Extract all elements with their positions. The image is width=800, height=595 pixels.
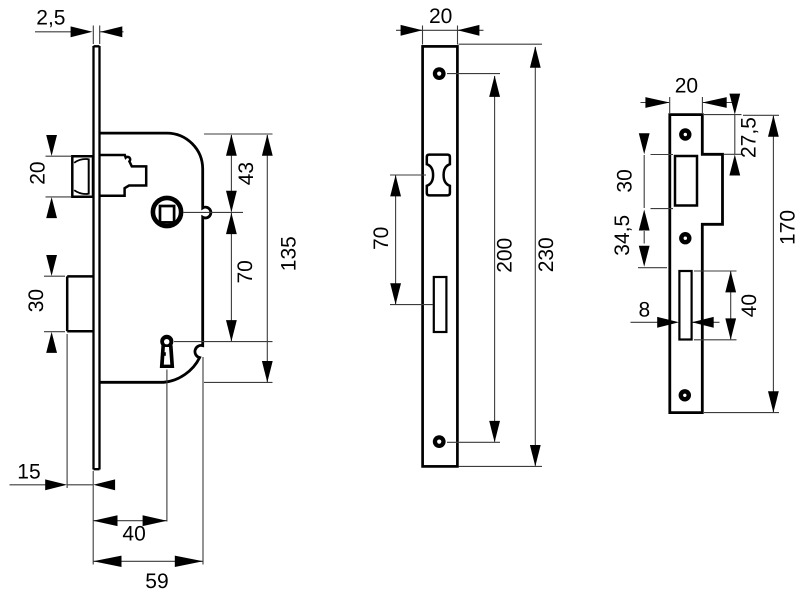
- extension line strike top for 170: [743, 114, 779, 116]
- dimension 135 (case height): [262, 134, 300, 382]
- dimension 20 (strike width): [641, 75, 735, 114]
- extension line body top edge: [204, 133, 273, 135]
- dimension 2,5 (faceplate thickness): [35, 6, 124, 44]
- strike deadbolt opening: [679, 271, 691, 340]
- dimension 40 (backset): [93, 515, 167, 545]
- extension line deadbolt opening top: [694, 270, 737, 272]
- extension line deadbolt opening bottom: [694, 339, 737, 341]
- svg-text:200: 200: [494, 238, 517, 273]
- lock case body outline: [100, 133, 211, 382]
- strike bottom screw hole: [679, 389, 691, 401]
- svg-text:70: 70: [234, 260, 257, 283]
- faceplate side view: [94, 46, 100, 470]
- dimension 230 (faceplate length): [530, 46, 558, 466]
- svg-text:2,5: 2,5: [36, 6, 65, 29]
- dimension 70 (latch to deadbolt): [370, 175, 401, 305]
- extension line keyhole centre: [174, 341, 273, 343]
- extension line deadbolt centre: [390, 304, 433, 306]
- svg-text:20: 20: [675, 75, 698, 98]
- extension line keyhole centre below: [166, 370, 168, 522]
- svg-text:27,5: 27,5: [738, 117, 761, 158]
- svg-text:40: 40: [122, 523, 145, 546]
- extension line 34,5 bottom: [638, 267, 667, 269]
- svg-text:135: 135: [277, 236, 300, 271]
- extension line faceplate below: [92, 471, 94, 565]
- svg-text:30: 30: [25, 289, 48, 312]
- dimension 170 (strike length): [768, 115, 799, 412]
- extension line strike top edge: [704, 114, 742, 116]
- dimension 200 (hole centres): [489, 76, 516, 443]
- dimension 30 (deadbolt height): [25, 255, 65, 353]
- faceplate front outline: [423, 46, 458, 466]
- follower hub (square spindle hole): [153, 198, 181, 226]
- svg-text:230: 230: [535, 237, 558, 272]
- extension line top hole: [447, 73, 500, 75]
- dimension 8 (deadbolt opening width): [631, 298, 720, 327]
- extension line bottom hole: [447, 441, 500, 443]
- dimension 40 (deadbolt opening height): [725, 271, 761, 340]
- extension line latch centre: [390, 174, 426, 176]
- dimension 30 (latch opening height): [614, 133, 650, 230]
- svg-text:15: 15: [17, 460, 40, 483]
- svg-text:20: 20: [27, 161, 50, 184]
- dimension 43 (top edge to follower): [226, 134, 258, 212]
- strike latch opening: [675, 156, 697, 206]
- extension line latch opening top: [651, 154, 674, 156]
- svg-text:30: 30: [614, 169, 637, 192]
- extension line tab top edge: [724, 153, 742, 155]
- dimension 20 (latch height): [27, 135, 72, 218]
- deadbolt cutout: [434, 277, 447, 332]
- deadbolt (protruding, side view): [67, 276, 93, 331]
- svg-text:20: 20: [429, 5, 452, 28]
- extension line strike bottom edge: [704, 412, 779, 414]
- bottom screw hole: [433, 435, 446, 448]
- extension line case right edge below: [202, 357, 204, 565]
- top screw hole: [433, 67, 446, 80]
- latch bolt (protruding, side view): [72, 156, 93, 197]
- extension line latch opening bottom: [651, 208, 674, 210]
- dimension 70 (follower to keyhole): [226, 213, 257, 342]
- dimension 15 (deadbolt throw): [10, 460, 116, 490]
- svg-text:34,5: 34,5: [611, 215, 634, 256]
- dimension 59 (case depth): [93, 556, 203, 594]
- svg-text:40: 40: [738, 294, 761, 317]
- svg-text:59: 59: [145, 570, 168, 593]
- strike middle screw hole: [679, 232, 691, 244]
- keyhole: [160, 335, 174, 368]
- strike plate outline: [670, 115, 723, 413]
- dimension 20 (faceplate width): [396, 5, 484, 44]
- svg-text:170: 170: [776, 210, 799, 245]
- dimension 27,5 (top to tab): [729, 94, 760, 176]
- extension line body bottom edge: [204, 381, 273, 383]
- svg-text:8: 8: [639, 298, 651, 321]
- extension line plate bottom right: [459, 465, 543, 467]
- strike top screw hole: [679, 128, 691, 140]
- extension line plate top right: [459, 43, 543, 45]
- latch cutout: [427, 155, 450, 196]
- dimension 34,5: [611, 215, 650, 267]
- extension line follower centre: [184, 211, 244, 213]
- svg-text:70: 70: [370, 227, 393, 250]
- svg-text:43: 43: [235, 162, 258, 185]
- extension line deadbolt face: [66, 334, 68, 488]
- latch bolt tail inside case: [100, 155, 146, 196]
